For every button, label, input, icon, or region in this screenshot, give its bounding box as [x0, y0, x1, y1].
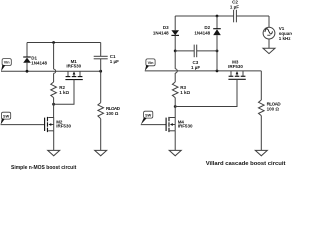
node SW (callout label, right circuit): [141, 111, 153, 124]
svg-text:1 µF: 1 µF: [230, 4, 239, 9]
svg-text:1N4148: 1N4148: [153, 30, 169, 35]
svg-text:IRF530: IRF530: [66, 64, 81, 69]
resistor R2 1 kΩ: [51, 82, 70, 98]
diode D3 (pointing down): [153, 16, 179, 51]
node Vin (callout label, left circuit): [1, 59, 11, 72]
svg-text:SW: SW: [3, 114, 10, 118]
svg-text:1 µF: 1 µF: [191, 65, 200, 70]
svg-text:1 kHz: 1 kHz: [279, 36, 292, 41]
svg-text:IRF530: IRF530: [178, 124, 193, 129]
wire: SW to M2 gate: [1, 124, 45, 126]
transistor M4 IRF530 (vertical n-MOSFET): [166, 117, 193, 132]
svg-text:Simple n-MOS boost circuit: Simple n-MOS boost circuit: [11, 165, 77, 171]
wire: main rail right circuit y=70.9: [145, 70, 261, 72]
svg-text:SW: SW: [145, 113, 152, 117]
diode D2 (pointing up): [194, 16, 220, 71]
svg-text:1 kΩ: 1 kΩ: [59, 90, 69, 95]
wire: R2 column with hop over input rail: [54, 43, 56, 83]
wire: Vin input rail y=71: [1, 70, 101, 72]
svg-text:1 µF: 1 µF: [110, 59, 119, 64]
svg-text:IRF530: IRF530: [228, 64, 243, 69]
wire: top rail left circuit: [27, 42, 101, 44]
capacitor C3 1 µF: [175, 45, 217, 70]
wire: D3 column with hop over main rail: [175, 51, 177, 82]
capacitor C2 1 µF: [230, 0, 269, 22]
ground (M2 source): [48, 150, 60, 155]
resistor RLOAD 100 Ω (left): [98, 71, 121, 150]
node dots right: [174, 50, 177, 53]
wire: R3 bottom to M4 drain: [174, 98, 176, 118]
svg-text:1N4148: 1N4148: [194, 30, 210, 35]
node Vin (callout label, right circuit): [145, 59, 155, 71]
ground (under V1): [263, 48, 275, 53]
svg-text:1 kΩ: 1 kΩ: [180, 90, 190, 95]
ground (M4 source): [169, 150, 181, 155]
capacitor C1 1 µF: [94, 43, 119, 72]
transistor M3 IRF530 (horizontal n-MOSFET): [228, 59, 246, 79]
resistor RLOAD 100 Ω (right): [259, 71, 282, 150]
svg-text:Vin: Vin: [4, 61, 11, 65]
wire: M3 gate to switch node: [175, 79, 237, 106]
svg-text:Vin: Vin: [148, 61, 155, 65]
svg-text:100 Ω: 100 Ω: [267, 107, 280, 112]
svg-text:1N4148: 1N4148: [31, 61, 47, 66]
svg-text:D3: D3: [163, 25, 169, 30]
resistor R3 1 kΩ: [172, 82, 190, 98]
wire: R2 bottom to M2 drain: [53, 98, 55, 118]
voltage source V1 square 1 kHz: [263, 16, 294, 48]
ground (right RLOAD): [255, 150, 267, 155]
wire: top rail right circuit: [175, 15, 233, 17]
ground (left RLOAD): [95, 150, 107, 155]
transistor M2 IRF530 (vertical n-MOSFET): [45, 117, 72, 132]
node junction dots left: [26, 70, 29, 73]
wire: SW to M4 gate: [141, 124, 166, 126]
svg-text:Villard cascade boost circuit: Villard cascade boost circuit: [206, 161, 286, 167]
diode D1: [23, 43, 47, 72]
wire: M4 source to ground: [174, 131, 176, 151]
svg-text:IRF530: IRF530: [56, 124, 71, 129]
transistor M1 IRF530 (horizontal n-MOSFET): [65, 59, 82, 79]
svg-text:100 Ω: 100 Ω: [106, 111, 119, 116]
svg-text:D2: D2: [204, 25, 210, 30]
wire: M1 gate to switch node: [54, 80, 74, 105]
node SW (callout label, left circuit): [1, 112, 11, 124]
wire: M2 source to ground: [53, 131, 55, 151]
